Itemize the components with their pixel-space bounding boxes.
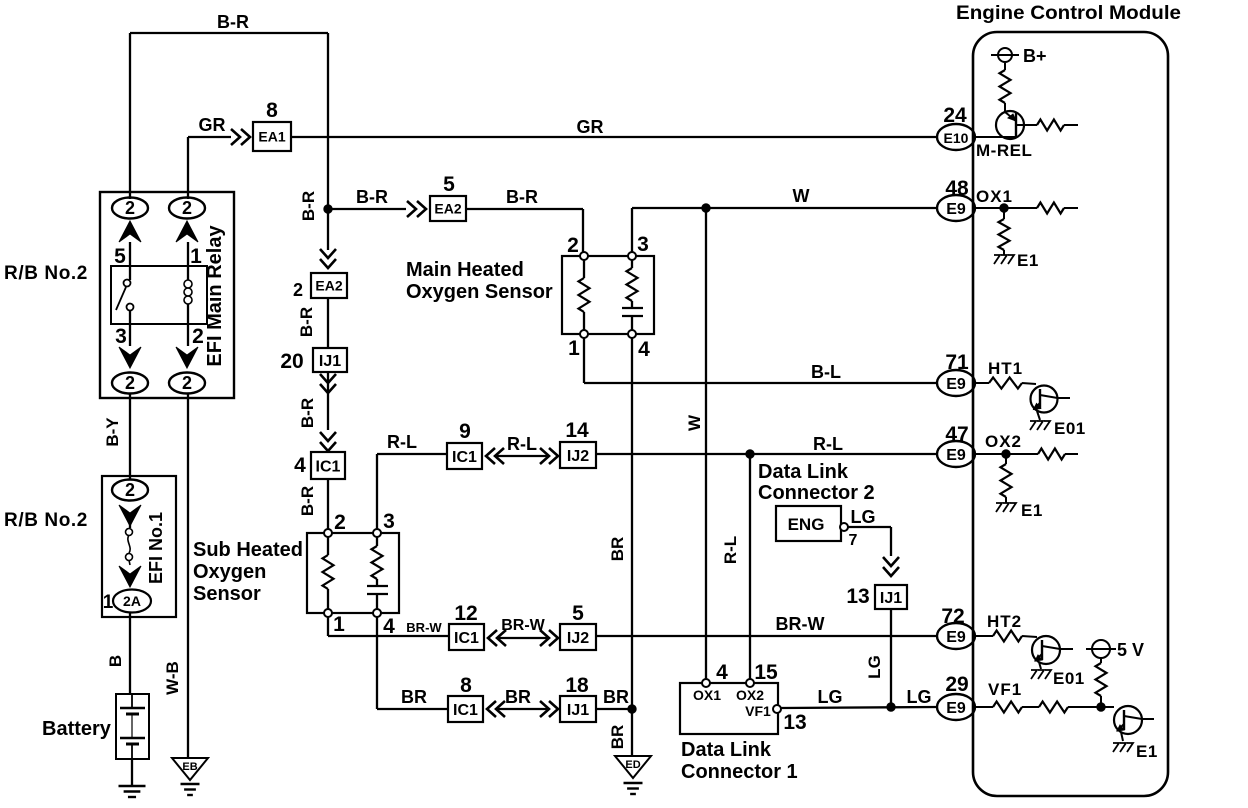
svg-text:E1: E1 xyxy=(1136,742,1158,761)
wire relay left lower xyxy=(129,310,131,346)
wire relay coil upper xyxy=(187,242,189,280)
label Sub Heated Oxygen Sensor xyxy=(193,539,303,605)
resistor VF1 first xyxy=(976,702,1022,713)
svg-text:B: B xyxy=(106,655,125,667)
wire OX2 internal xyxy=(976,453,1038,455)
wire sub O2 pin3 riser xyxy=(376,454,378,533)
svg-text:BR-W: BR-W xyxy=(501,617,545,634)
relay pin oval 2 top-left xyxy=(112,198,148,219)
relay pin 3 label xyxy=(115,325,127,348)
svg-text:B-R: B-R xyxy=(298,486,317,516)
transistor VF1 driver xyxy=(1114,706,1154,734)
relay R/B No.2 outer box xyxy=(100,192,234,398)
svg-text:Connector 1: Connector 1 xyxy=(681,761,798,783)
node B-R junction xyxy=(324,205,332,213)
main O2 pin 1 xyxy=(568,330,588,360)
svg-text:IC1: IC1 xyxy=(453,702,478,719)
svg-text:E9: E9 xyxy=(946,629,966,646)
label GR (right) xyxy=(577,117,604,137)
label R/B No.2 (upper) xyxy=(4,263,88,284)
svg-text:2: 2 xyxy=(192,325,204,348)
svg-text:20: 20 xyxy=(280,350,303,373)
node R-L junction xyxy=(746,450,754,458)
svg-text:E01: E01 xyxy=(1053,669,1085,688)
sub O2 pin 4 xyxy=(373,609,395,638)
relay pin oval 2 top-right xyxy=(169,198,205,219)
svg-text:Engine Control Module: Engine Control Module xyxy=(956,3,1181,24)
label EFI Main Relay xyxy=(204,225,226,367)
arrow down left xyxy=(119,347,141,368)
svg-text:LG: LG xyxy=(851,507,876,527)
label R-L left xyxy=(387,432,417,452)
label BR-W mid xyxy=(501,617,545,634)
svg-text:OX1: OX1 xyxy=(976,187,1013,206)
connector DLC1 box xyxy=(680,683,778,734)
pin 5 label IJ2 xyxy=(572,602,584,625)
ECM pin 24 E10 xyxy=(937,104,975,150)
label B-R vertical 2 xyxy=(297,307,316,337)
svg-text:R-L: R-L xyxy=(387,432,417,452)
svg-text:R-L: R-L xyxy=(721,536,740,564)
svg-text:E9: E9 xyxy=(946,700,966,717)
svg-text:EFI Main Relay: EFI Main Relay xyxy=(204,225,226,367)
wire main O2 pin1 riser xyxy=(583,338,585,383)
svg-text:VF1: VF1 xyxy=(745,703,771,719)
label M-REL xyxy=(976,141,1032,160)
wire relay coil lower xyxy=(187,304,189,346)
svg-text:GR: GR xyxy=(577,117,604,137)
svg-text:B-R: B-R xyxy=(506,187,538,207)
label B-R vertical 4 xyxy=(298,486,317,516)
label LG left xyxy=(818,687,843,707)
svg-text:B+: B+ xyxy=(1023,46,1047,66)
svg-text:W: W xyxy=(685,414,704,431)
main O2 pin 4 xyxy=(628,330,650,361)
connector EA1 xyxy=(253,122,291,151)
label BR left xyxy=(401,687,427,707)
wire BR vertical from main O2 pin 4 xyxy=(631,338,633,709)
svg-text:Main Heated: Main Heated xyxy=(406,259,524,281)
svg-text:18: 18 xyxy=(565,674,589,697)
svg-text:15: 15 xyxy=(754,661,778,684)
svg-text:5: 5 xyxy=(114,245,126,268)
ECM pin 71 E9 xyxy=(937,351,975,396)
pin 2 label EA2 xyxy=(293,280,303,300)
wire BR to ground xyxy=(631,709,633,756)
label LG vertical xyxy=(865,655,884,679)
svg-text:2A: 2A xyxy=(123,593,141,609)
DLC1 label OX1 xyxy=(693,687,721,703)
svg-text:7: 7 xyxy=(849,532,858,549)
svg-text:4: 4 xyxy=(638,338,650,361)
wire W-B vertical xyxy=(187,394,189,758)
label R-L mid xyxy=(507,434,537,454)
svg-text:BR-W: BR-W xyxy=(776,614,825,634)
DLC1 pin 15 xyxy=(746,661,778,687)
resistor HT2 xyxy=(976,631,1037,642)
svg-text:B-Y: B-Y xyxy=(103,417,122,447)
svg-text:ED: ED xyxy=(625,759,640,771)
arrow up left xyxy=(119,221,141,242)
svg-text:Sub Heated: Sub Heated xyxy=(193,539,303,561)
svg-text:R/B No.2: R/B No.2 xyxy=(4,510,88,531)
main O2 pin 2 xyxy=(567,234,588,260)
wire IJ1 to LG junction xyxy=(890,609,892,707)
svg-text:IJ2: IJ2 xyxy=(567,630,589,647)
transistor HT2 driver xyxy=(1032,636,1073,664)
wire top B-R horizontal xyxy=(130,32,328,34)
label B-R vertical (junction) xyxy=(299,191,318,221)
label B-R row right xyxy=(506,187,538,207)
main O2 sensor element xyxy=(579,260,590,330)
resistor HT1 xyxy=(976,378,1036,389)
wire R-L to ECM pin 47 xyxy=(596,453,936,455)
DLC1 pin 4 xyxy=(702,661,728,687)
link arrow BR-W xyxy=(488,630,558,646)
wire VF1 emitter xyxy=(1121,732,1123,741)
label Data Link Connector 1 xyxy=(681,739,798,783)
svg-text:14: 14 xyxy=(565,419,589,442)
connector IJ1 18 xyxy=(560,696,596,722)
connector IJ1 13 xyxy=(875,585,907,609)
svg-text:GR: GR xyxy=(199,115,226,135)
label BR right xyxy=(603,687,629,707)
label Engine Control Module xyxy=(956,3,1181,24)
transistor HT1 driver xyxy=(1031,386,1071,413)
svg-text:OX2: OX2 xyxy=(985,432,1022,451)
svg-text:E10: E10 xyxy=(944,130,969,146)
ground below battery xyxy=(119,786,146,797)
wire GR to junction arrow xyxy=(188,136,231,138)
label W vertical xyxy=(685,414,704,431)
connector EA2 lower xyxy=(311,273,347,298)
wire EA2 to main sensor pin 2 xyxy=(466,209,583,256)
node VF1 xyxy=(1097,703,1105,711)
svg-text:EA2: EA2 xyxy=(315,278,342,294)
ECM pin 47 E9 xyxy=(937,423,975,467)
ground E01 at HT1 xyxy=(1030,419,1086,438)
label B-L xyxy=(811,362,841,382)
sub O2 pin 1 xyxy=(324,609,345,636)
DLC2 pin 7 xyxy=(840,523,858,549)
svg-text:5 V: 5 V xyxy=(1117,640,1144,660)
wire LG row to ECM pin 29 xyxy=(781,707,936,708)
connector IJ1 20 xyxy=(313,348,347,372)
svg-text:B-R: B-R xyxy=(217,12,249,32)
svg-text:HT1: HT1 xyxy=(988,359,1023,378)
sub O2 pin 2 xyxy=(324,511,346,537)
arrow down fuse top xyxy=(119,505,141,526)
label W-B xyxy=(163,661,182,695)
wire B to battery xyxy=(129,613,131,694)
connector IJ2 14 xyxy=(560,442,596,468)
connector IJ2 5 xyxy=(560,624,596,650)
svg-text:VF1: VF1 xyxy=(988,680,1022,699)
label LG right xyxy=(907,687,932,707)
svg-text:Connector 2: Connector 2 xyxy=(758,482,875,504)
label B-R vertical 3 xyxy=(298,398,317,428)
relay coil xyxy=(184,280,192,304)
arrow down out of IJ1 xyxy=(320,374,336,393)
svg-text:IJ2: IJ2 xyxy=(567,448,589,465)
svg-text:9: 9 xyxy=(459,420,471,443)
connector IC1 9 xyxy=(447,443,482,469)
fuse EFI No.1 element xyxy=(126,523,133,565)
svg-text:2: 2 xyxy=(567,234,579,257)
svg-text:Data Link: Data Link xyxy=(681,739,772,761)
wire HT2 emitter xyxy=(1039,662,1041,669)
svg-text:2: 2 xyxy=(125,480,135,500)
battery BAT xyxy=(116,694,149,759)
wire BR-W to ECM pin 72 xyxy=(596,635,936,637)
svg-text:OX1: OX1 xyxy=(693,687,721,703)
ECM pin 29 E9 xyxy=(937,673,975,720)
svg-text:IJ1: IJ1 xyxy=(567,702,589,719)
svg-text:Battery: Battery xyxy=(42,718,112,740)
wire W vertical to DLC1 xyxy=(705,208,707,680)
svg-text:4: 4 xyxy=(716,661,728,684)
label Data Link Connector 2 xyxy=(758,461,875,504)
ECM pin 48 E9 xyxy=(937,177,975,221)
fuse pin oval 2 xyxy=(112,480,148,501)
svg-text:ENG: ENG xyxy=(788,515,825,534)
svg-text:E9: E9 xyxy=(946,201,966,218)
label HT1 xyxy=(988,359,1023,378)
svg-text:LG: LG xyxy=(907,687,932,707)
wire EA2 to IJ1 xyxy=(327,298,329,348)
svg-text:E01: E01 xyxy=(1054,419,1086,438)
supply 5V xyxy=(1086,640,1144,660)
node BR junction xyxy=(628,705,636,713)
ECM box xyxy=(973,32,1168,796)
main O2 heater xyxy=(622,260,643,330)
svg-text:2: 2 xyxy=(125,198,135,218)
resistor 5V feed xyxy=(1096,658,1107,707)
label GR xyxy=(199,115,226,135)
arrow into EA2 upper xyxy=(407,201,426,217)
svg-text:EFI No.1: EFI No.1 xyxy=(146,512,166,584)
wire IJ1 to IC1 arrows xyxy=(327,372,329,430)
ECM pin 72 E9 xyxy=(937,605,975,649)
arrow down into IJ1 13 xyxy=(883,557,899,576)
svg-text:BR: BR xyxy=(608,725,627,750)
label OX2 in ECM xyxy=(985,432,1022,451)
main O2 pin 3 xyxy=(628,233,649,260)
ground EB xyxy=(172,758,208,795)
connector IC1 12 xyxy=(449,624,484,650)
DLC1 pin 13 xyxy=(773,705,807,734)
wire B-Y xyxy=(129,394,131,480)
arrow into EA1 xyxy=(231,129,250,145)
ground E1 at OX2 xyxy=(996,501,1043,520)
svg-text:Sensor: Sensor xyxy=(193,583,261,605)
svg-text:R-L: R-L xyxy=(507,434,537,454)
label B-Y xyxy=(103,417,122,447)
sub O2 pin 3 xyxy=(373,510,395,537)
ground E1 at OX1 xyxy=(994,251,1039,270)
wire junction to EA2 arrows xyxy=(327,209,329,250)
wire HT1 emitter xyxy=(1037,411,1040,420)
wire ENG to IJ1 arrows xyxy=(848,527,891,556)
relay pin oval 2 bottom-right xyxy=(169,373,205,394)
pin 18 label xyxy=(565,674,589,697)
svg-text:OX2: OX2 xyxy=(736,687,764,703)
arrow down fuse bottom xyxy=(119,566,141,587)
svg-text:W-B: W-B xyxy=(163,661,182,695)
wire sub O2 pin4 riser xyxy=(377,617,448,709)
label BR vertical lower xyxy=(608,725,627,750)
wire IJ1 to BR junction xyxy=(596,708,632,710)
DLC1 label OX2 xyxy=(736,687,764,703)
svg-text:1: 1 xyxy=(333,613,345,636)
link arrow R-L xyxy=(486,448,558,464)
fuse pin oval 2A xyxy=(113,590,151,613)
relay inner box xyxy=(111,266,207,324)
svg-text:BR: BR xyxy=(603,687,629,707)
fuse pin 1 label xyxy=(103,592,114,613)
wire IC1 to sensor pin 2 xyxy=(327,479,329,533)
svg-text:4: 4 xyxy=(294,454,306,477)
wire B-L row to ECM pin 71 xyxy=(584,382,936,384)
svg-text:13: 13 xyxy=(783,711,806,734)
svg-text:2: 2 xyxy=(125,373,135,393)
resistor OX2 pulldown xyxy=(1001,454,1012,503)
svg-text:R/B No.2: R/B No.2 xyxy=(4,263,88,284)
svg-text:E1: E1 xyxy=(1021,501,1043,520)
svg-text:8: 8 xyxy=(460,674,472,697)
label Main Heated Oxygen Sensor xyxy=(406,259,553,303)
svg-text:Data Link: Data Link xyxy=(758,461,849,483)
pin 8 label IC1 xyxy=(460,674,472,697)
label OX1 in ECM xyxy=(976,187,1013,206)
pin 12 label xyxy=(454,602,477,625)
resistor M-REL output xyxy=(1037,120,1078,131)
svg-text:W: W xyxy=(793,186,810,206)
node OX2 xyxy=(1002,450,1010,458)
svg-text:12: 12 xyxy=(454,602,477,625)
node W junction xyxy=(702,204,710,212)
label B xyxy=(106,655,125,667)
svg-text:13: 13 xyxy=(846,585,869,608)
svg-text:2: 2 xyxy=(182,373,192,393)
label BR-W small xyxy=(406,620,442,635)
svg-text:EB: EB xyxy=(182,761,197,773)
wire left vertical to relay pin xyxy=(129,33,131,199)
connector IC1 8 xyxy=(448,696,483,722)
connector DLC2 ENG box xyxy=(776,506,841,541)
wire B-R row xyxy=(328,208,406,210)
main O2 sensor box xyxy=(562,256,654,334)
transistor M-REL driver xyxy=(976,111,1037,139)
svg-text:5: 5 xyxy=(443,173,455,196)
label BR-W right xyxy=(776,614,825,634)
svg-text:4: 4 xyxy=(383,615,395,638)
arrow down right xyxy=(176,347,198,368)
connector EA2 upper xyxy=(430,196,466,221)
svg-text:HT2: HT2 xyxy=(987,612,1022,631)
svg-text:BR: BR xyxy=(505,687,531,707)
connector IC1 4 xyxy=(311,452,345,479)
svg-text:BR: BR xyxy=(608,537,627,562)
label W xyxy=(793,186,810,206)
wire main sensor pin3 riser xyxy=(631,208,633,256)
svg-text:3: 3 xyxy=(115,325,127,348)
svg-text:1: 1 xyxy=(190,245,202,268)
label R-L vertical xyxy=(721,536,740,564)
sub O2 sensor element xyxy=(323,537,334,609)
resistor B+ feed xyxy=(1000,63,1011,112)
label EFI No.1 xyxy=(146,512,166,584)
wire GR riser from relay pin 1 xyxy=(187,137,189,199)
wire R-L elbow to IC1 xyxy=(377,453,447,455)
svg-text:B-R: B-R xyxy=(298,398,317,428)
resistor OX2 series xyxy=(1038,449,1078,460)
svg-text:E9: E9 xyxy=(946,376,966,393)
arrow down into EA2 xyxy=(320,249,336,268)
label Battery xyxy=(42,718,112,740)
svg-text:5: 5 xyxy=(572,602,584,625)
svg-text:IC1: IC1 xyxy=(454,630,479,647)
relay switch contact xyxy=(116,280,134,311)
svg-text:BR: BR xyxy=(401,687,427,707)
wire relay left upper xyxy=(129,242,131,280)
svg-text:IC1: IC1 xyxy=(316,458,341,475)
pin 5 label EA2 upper xyxy=(443,173,455,196)
pin 9 label xyxy=(459,420,471,443)
svg-text:B-R: B-R xyxy=(299,191,318,221)
svg-text:2: 2 xyxy=(334,511,346,534)
ground ED xyxy=(615,756,651,794)
label R-L right xyxy=(813,434,843,454)
arrow down into IC1 xyxy=(320,432,336,451)
pin 8 label xyxy=(266,99,278,122)
svg-text:IJ1: IJ1 xyxy=(319,353,341,370)
wire OX1 internal xyxy=(976,207,1037,209)
relay pin 1 label xyxy=(190,245,202,268)
svg-text:B-R: B-R xyxy=(297,307,316,337)
svg-text:LG: LG xyxy=(818,687,843,707)
label BR mid xyxy=(505,687,531,707)
svg-text:B-R: B-R xyxy=(356,187,388,207)
sub O2 heater xyxy=(367,537,388,609)
resistor OX1 pulldown xyxy=(999,208,1010,255)
label HT2 xyxy=(987,612,1022,631)
link arrow BR xyxy=(487,701,558,717)
wire battery to ground xyxy=(131,759,133,786)
supply B+ xyxy=(991,46,1047,66)
svg-text:Oxygen Sensor: Oxygen Sensor xyxy=(406,281,553,303)
resistor VF1 second xyxy=(1022,702,1114,713)
svg-text:LG: LG xyxy=(865,655,884,679)
svg-text:M-REL: M-REL xyxy=(976,141,1032,160)
label VF1 in ECM xyxy=(988,680,1022,699)
svg-text:29: 29 xyxy=(945,673,968,696)
wire W to ECM pin 48 xyxy=(632,207,936,209)
pin 14 label xyxy=(565,419,589,442)
fuse block R/B No.2 lower box xyxy=(102,476,176,617)
svg-text:B-L: B-L xyxy=(811,362,841,382)
arrow up right xyxy=(176,221,198,242)
label B-R (top) xyxy=(217,12,249,32)
DLC1 label VF1 xyxy=(745,703,771,719)
sub O2 sensor box xyxy=(307,533,399,613)
label B-R row left xyxy=(356,187,388,207)
wire sub O2 pin1 riser xyxy=(328,617,449,636)
svg-text:3: 3 xyxy=(383,510,395,533)
svg-text:E1: E1 xyxy=(1017,251,1039,270)
svg-text:Oxygen: Oxygen xyxy=(193,561,266,583)
label BR vertical upper xyxy=(608,537,627,562)
